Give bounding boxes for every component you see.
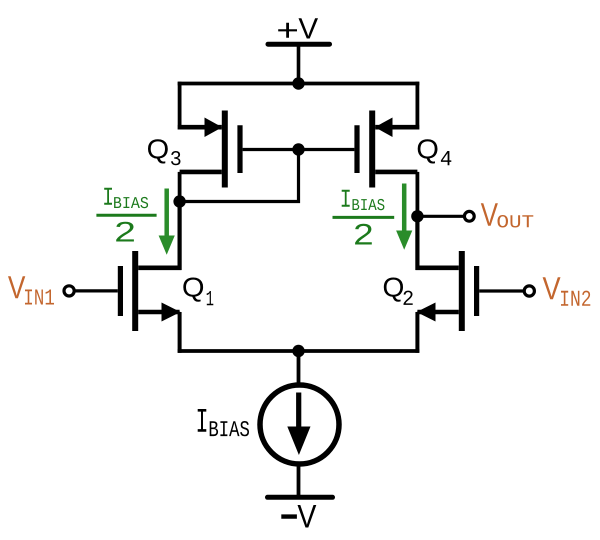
current arrow I_BIAS/2 right [396,184,412,250]
label V_OUT [481,203,534,227]
label +V [278,18,318,38]
transistor Q3 [178,111,240,188]
terminal V_IN2 [524,286,534,296]
current arrow I_BIAS/2 left [159,189,175,255]
wire: top rail [178,82,420,86]
wire: output node to Q2 drain [415,215,419,271]
label Q1 [183,278,213,306]
junction dot: output node [411,210,423,222]
label Q2 [384,278,413,305]
transistor Q4 [357,111,419,188]
current source I_BIAS [260,385,339,464]
junction dot: tail node [292,345,304,357]
wire: current source to -V [297,462,301,498]
wire: rail to Q4 drain [415,82,419,130]
wire: +V stub [297,44,301,83]
wire: Q3 gate to mirror node [243,148,299,151]
wire: Q2 source to tail rail [415,312,419,353]
wire: output node to terminal [417,215,463,218]
wire: Q4 source to output node [415,172,419,216]
wire: mirror node to Q4 gate [299,148,355,151]
wire: V_IN2 to Q2 gate [479,289,524,292]
junction dot: top rail node [292,77,304,89]
junction dot: mirror gate node [292,143,304,155]
wire: V_IN1 to Q1 gate [74,289,118,292]
supply -V bar [268,495,333,500]
wire: Q3 source to node A [178,172,182,202]
wire: rail to Q3 drain [178,82,182,130]
label I_BIAS/2 left [96,188,156,242]
label V_IN2 [543,277,591,306]
wire: diode connection of Q3 [180,150,299,202]
label Q3 [148,139,181,165]
label -V [281,505,316,528]
supply +V bar [268,42,330,47]
label I_BIAS/2 right [333,190,395,245]
terminal V_IN1 [64,286,74,296]
wire: node A to Q1 drain [178,200,182,270]
wire: tail rail [178,349,420,353]
transistor Q1 [120,251,181,331]
junction dot: node A (mirror input) [173,195,185,207]
transistor Q2 [416,251,477,331]
wire: tail node to current source [297,351,301,386]
terminal V_OUT [464,211,474,221]
label V_IN1 [8,276,54,304]
wire: Q1 source to tail rail [178,312,182,353]
label I_BIAS [198,409,249,436]
label Q4 [418,139,452,165]
